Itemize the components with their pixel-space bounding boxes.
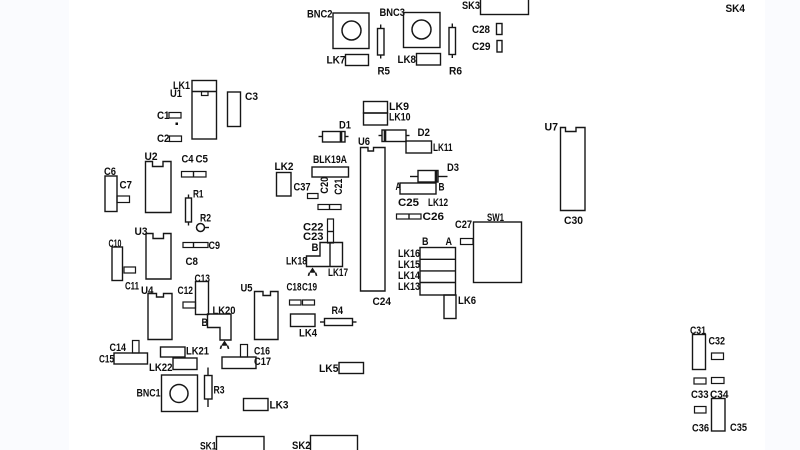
svg-text:R1: R1 bbox=[193, 189, 204, 201]
svg-text:C4: C4 bbox=[182, 154, 195, 166]
svg-text:LK5: LK5 bbox=[319, 363, 339, 375]
svg-text:D1: D1 bbox=[339, 120, 351, 132]
svg-text:U5: U5 bbox=[241, 283, 253, 295]
svg-text:C14: C14 bbox=[110, 342, 127, 354]
svg-text:BNC1: BNC1 bbox=[137, 388, 161, 400]
svg-text:C32: C32 bbox=[709, 336, 726, 348]
svg-text:C11: C11 bbox=[125, 281, 139, 293]
svg-text:C26: C26 bbox=[423, 211, 445, 223]
svg-text:LK18: LK18 bbox=[286, 256, 307, 268]
svg-text:SK1: SK1 bbox=[200, 441, 217, 450]
svg-text:C18: C18 bbox=[287, 282, 302, 294]
svg-text:R2: R2 bbox=[200, 213, 211, 225]
svg-text:C29: C29 bbox=[472, 41, 491, 53]
svg-text:LK6: LK6 bbox=[458, 295, 476, 307]
svg-text:SK3: SK3 bbox=[462, 0, 480, 12]
svg-text:R3: R3 bbox=[214, 385, 225, 397]
svg-text:LK22: LK22 bbox=[149, 362, 173, 374]
svg-text:LK8: LK8 bbox=[398, 54, 417, 66]
svg-text:R4: R4 bbox=[332, 305, 344, 317]
svg-text:C21: C21 bbox=[333, 179, 345, 195]
svg-text:C13: C13 bbox=[195, 273, 211, 285]
svg-text:LK7: LK7 bbox=[327, 55, 346, 67]
svg-text:B: B bbox=[312, 242, 319, 254]
svg-text:LK17: LK17 bbox=[328, 267, 348, 279]
svg-text:LK4: LK4 bbox=[299, 328, 318, 340]
svg-text:LK21: LK21 bbox=[186, 346, 209, 358]
svg-text:LK10: LK10 bbox=[389, 112, 411, 124]
svg-text:C20: C20 bbox=[319, 177, 331, 194]
svg-text:B: B bbox=[422, 236, 429, 248]
svg-text:B: B bbox=[439, 182, 445, 194]
svg-text:U7: U7 bbox=[545, 122, 559, 134]
svg-text:BNC3: BNC3 bbox=[380, 7, 406, 19]
svg-text:C33: C33 bbox=[691, 389, 709, 401]
svg-text:R6: R6 bbox=[449, 66, 462, 78]
svg-text:C37: C37 bbox=[294, 182, 311, 194]
svg-text:C35: C35 bbox=[730, 422, 747, 434]
svg-text:C1: C1 bbox=[157, 110, 170, 122]
svg-text:C34: C34 bbox=[710, 389, 729, 401]
svg-text:C7: C7 bbox=[120, 180, 133, 192]
svg-text:R5: R5 bbox=[378, 66, 391, 78]
svg-text:C9: C9 bbox=[209, 240, 221, 252]
svg-text:LK12: LK12 bbox=[428, 197, 448, 209]
svg-text:C2: C2 bbox=[157, 133, 170, 145]
svg-text:C10: C10 bbox=[109, 238, 122, 250]
svg-text:A: A bbox=[446, 236, 453, 248]
svg-text:SK2: SK2 bbox=[292, 440, 311, 450]
svg-text:C15: C15 bbox=[99, 354, 114, 366]
svg-text:LK11: LK11 bbox=[433, 142, 453, 154]
svg-text:C28: C28 bbox=[472, 24, 490, 36]
svg-text:U6: U6 bbox=[358, 136, 370, 148]
svg-text:LK3: LK3 bbox=[270, 400, 289, 412]
svg-text:C12: C12 bbox=[178, 285, 194, 297]
svg-text:C19: C19 bbox=[302, 282, 317, 294]
svg-text:LK13: LK13 bbox=[398, 281, 420, 293]
svg-text:C24: C24 bbox=[373, 296, 392, 308]
svg-text:U1: U1 bbox=[170, 88, 182, 100]
svg-text:B: B bbox=[202, 317, 209, 329]
svg-text:C3: C3 bbox=[245, 91, 258, 103]
svg-text:BLK19A: BLK19A bbox=[313, 154, 347, 166]
svg-text:D2: D2 bbox=[418, 127, 431, 139]
svg-text:SK4: SK4 bbox=[726, 3, 746, 15]
svg-text:C25: C25 bbox=[398, 197, 419, 209]
svg-text:C36: C36 bbox=[692, 423, 709, 435]
svg-text:LK20: LK20 bbox=[213, 305, 236, 317]
svg-text:C8: C8 bbox=[186, 256, 199, 268]
svg-text:LK2: LK2 bbox=[275, 161, 294, 173]
svg-text:BNC2: BNC2 bbox=[307, 9, 333, 21]
svg-text:C30: C30 bbox=[564, 215, 583, 227]
svg-text:C27: C27 bbox=[455, 219, 472, 231]
svg-text:C5: C5 bbox=[196, 154, 209, 166]
svg-text:D3: D3 bbox=[447, 162, 459, 174]
